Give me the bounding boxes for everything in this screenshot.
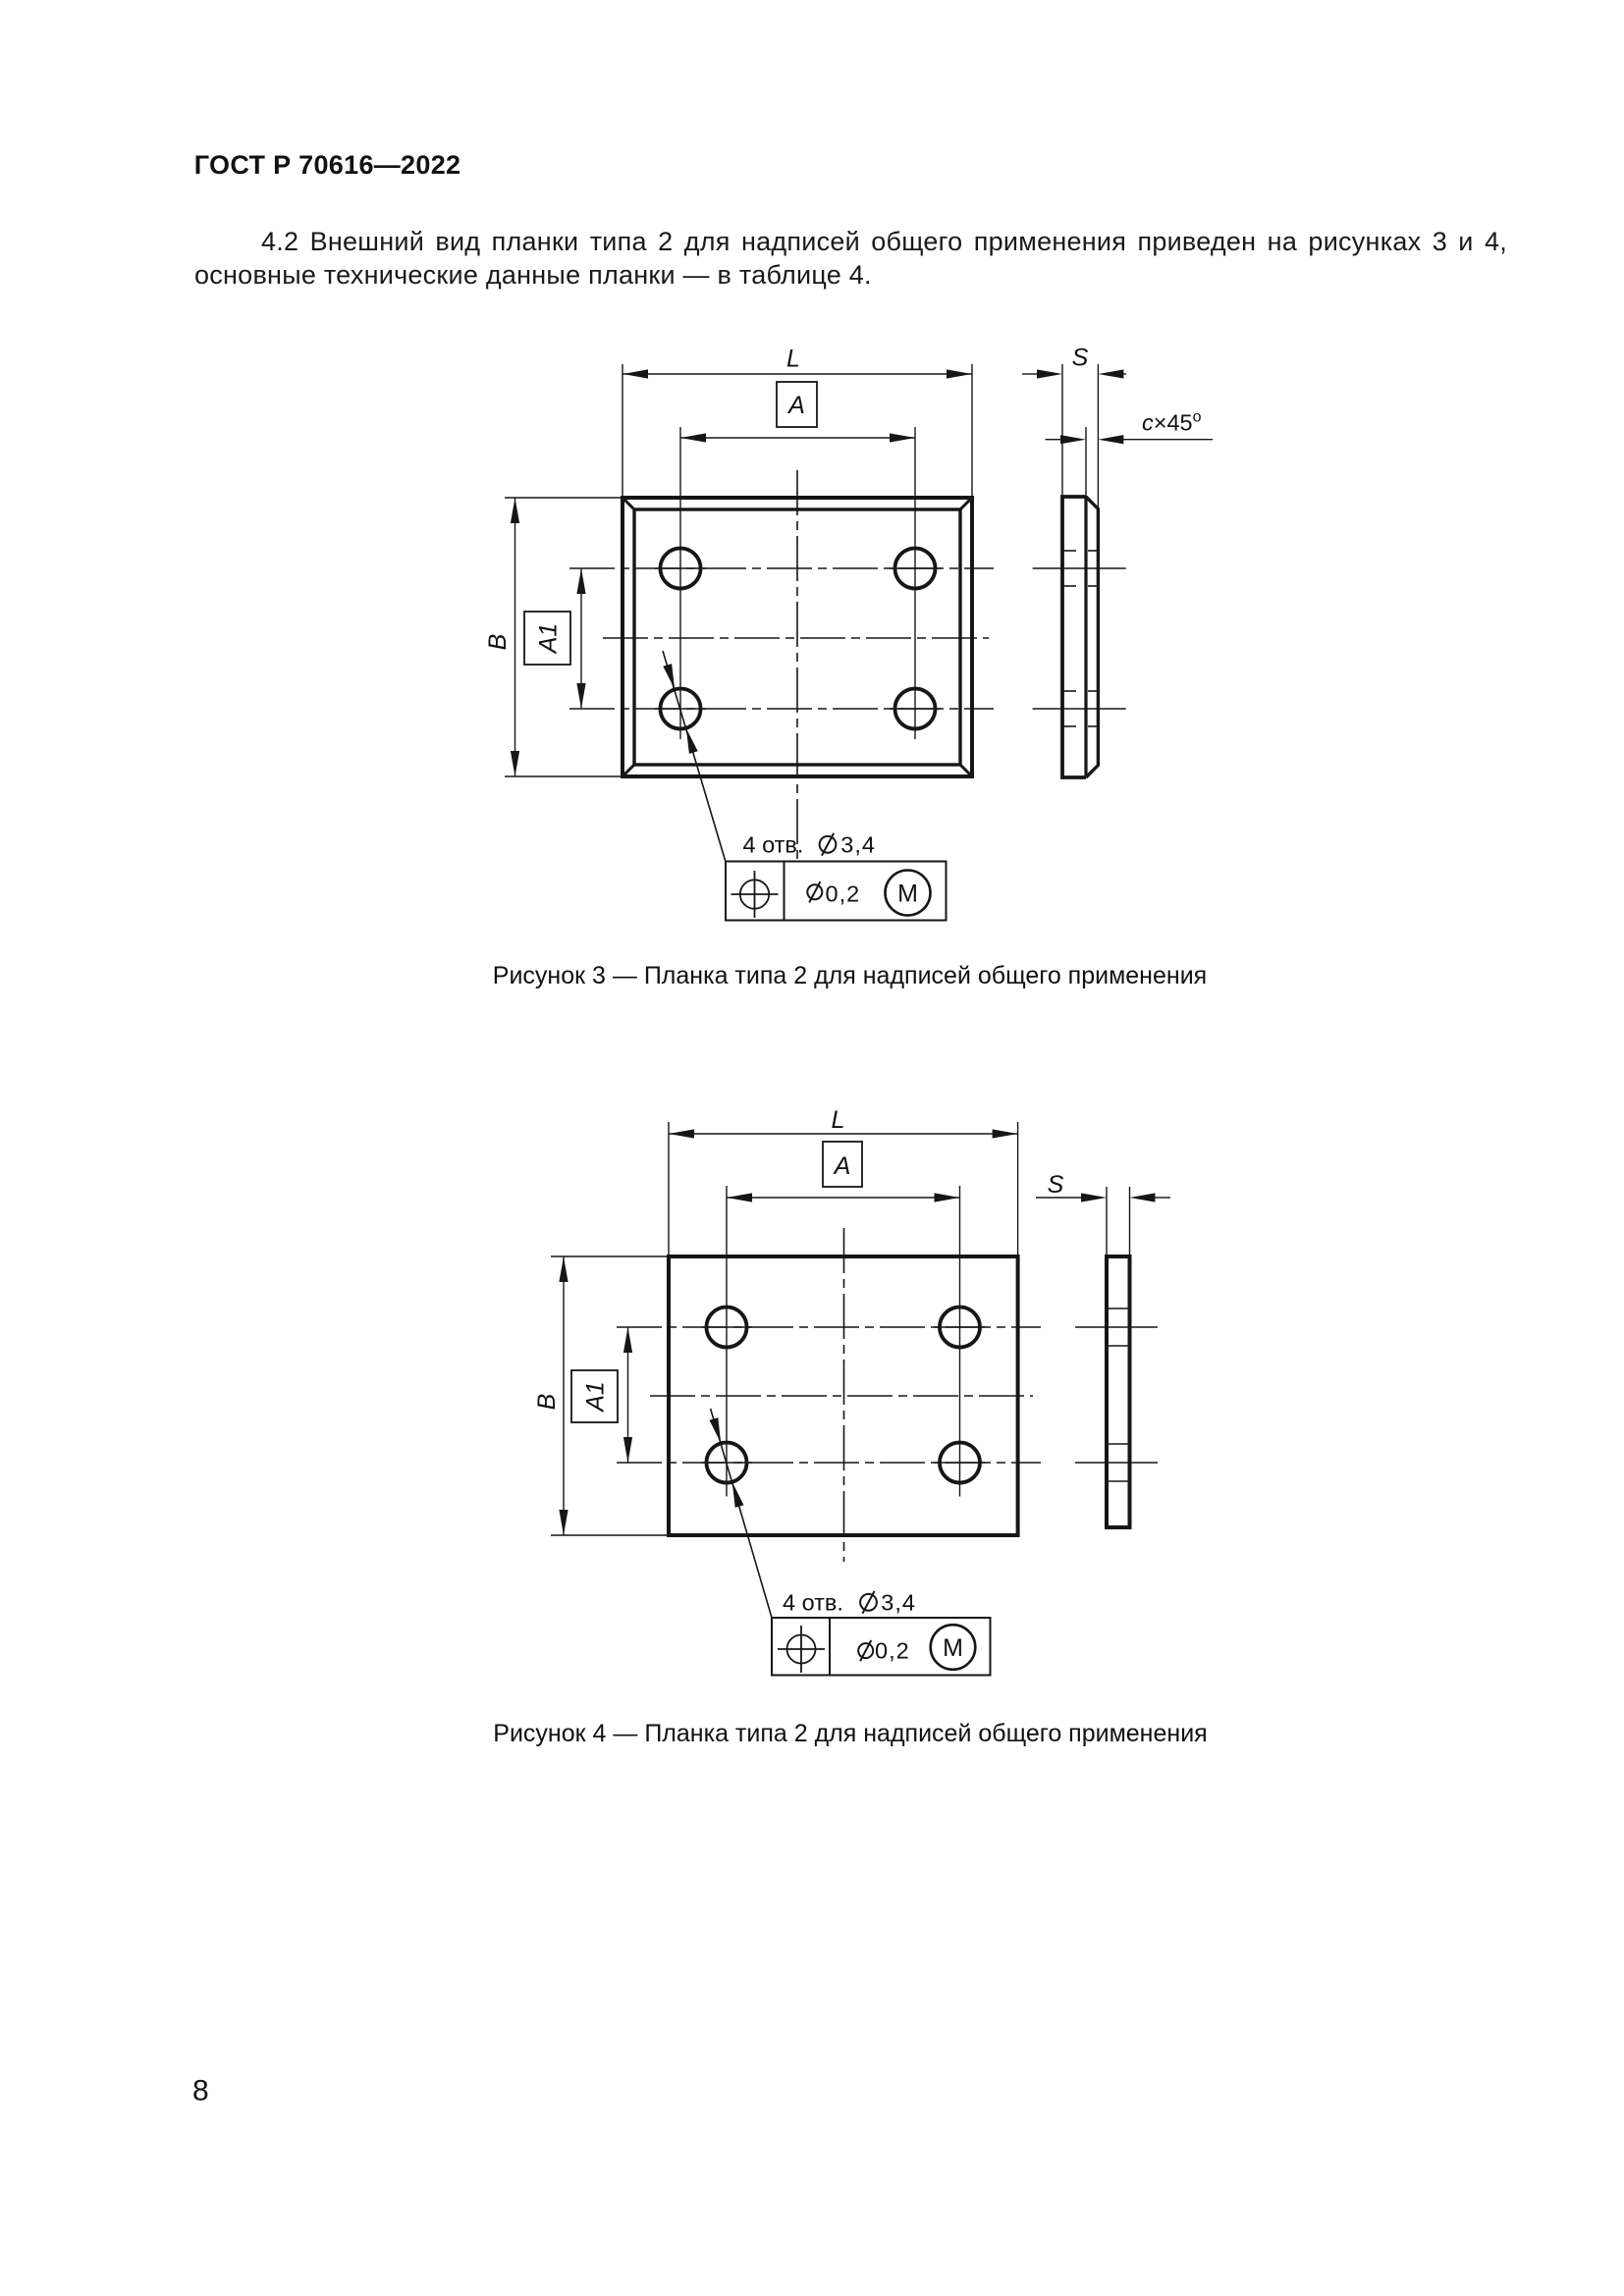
fig4 plate horizontal centerline [650, 1395, 1033, 1397]
fig4 hole top-left [707, 1308, 747, 1348]
svg-text:S: S [1048, 1171, 1064, 1199]
svg-text:A: A [833, 1152, 851, 1180]
fig4 side view hole row 2 centerline [1075, 1462, 1158, 1464]
fig3 dimension B extension line top [505, 497, 623, 499]
fig4 hole top-right [940, 1308, 980, 1348]
fig3 dimension A frame label [777, 382, 817, 427]
fig3 side view hole edge tick 2 [1064, 585, 1077, 587]
fig4 tolerance diameter symbol [858, 1643, 873, 1658]
svg-text:4 отв.: 4 отв. [783, 1590, 843, 1616]
fig3 dimension A line [680, 437, 915, 439]
paragraph 4.2 line 2 [194, 258, 1507, 292]
fig4 side view hole row 1 centerline [1075, 1326, 1158, 1328]
svg-text:B: B [533, 1394, 561, 1411]
fig4 dimension B extension line bottom [551, 1534, 669, 1536]
fig3 hole bottom-left [661, 689, 701, 729]
fig4 hole bottom-right [940, 1443, 980, 1483]
fig3 chamfer extension line [1085, 427, 1087, 497]
fig3 hole column centerline right (A extension) [914, 427, 916, 739]
fig4 dimension A line [727, 1197, 960, 1199]
fig3 chamfer corner edge top-right [960, 498, 972, 509]
fig4 hole callout diameter symbol [860, 1594, 877, 1611]
fig4 feature control frame divider [829, 1618, 831, 1676]
fig3 side view hole edge tick 1 [1064, 550, 1077, 552]
fig3 chamfer corner edge bottom-right [960, 765, 972, 776]
fig3 hole bottom-right [895, 689, 936, 729]
svg-text:A1: A1 [535, 623, 563, 656]
fig4 hole bottom-left [707, 1443, 747, 1483]
svg-text:0,2: 0,2 [826, 881, 861, 907]
fig4 dimension A1 line [627, 1327, 629, 1463]
svg-text:Рисунок 4 — Планка типа 2 для: Рисунок 4 — Планка типа 2 для надписей о… [493, 1720, 1207, 1747]
fig4 hole center dash overlays [701, 1326, 752, 1328]
fig3 hole column centerline left (A extension) [679, 427, 681, 739]
fig4 hole column centerline left (A extension) [726, 1186, 728, 1497]
svg-text:3,4: 3,4 [840, 832, 876, 858]
fig4 dimension L line [669, 1133, 1018, 1135]
svg-text:ГОСТ Р 70616—2022: ГОСТ Р 70616—2022 [194, 150, 461, 180]
fig3 plate vertical centerline [796, 470, 798, 865]
fig3 dimension L extension line left [622, 364, 623, 498]
fig4 side view outline [1107, 1256, 1130, 1527]
fig4 position tolerance symbol [787, 1635, 816, 1664]
fig3 side view outline [1062, 497, 1086, 777]
fig3 plate horizontal centerline [603, 637, 989, 639]
fig4 dimension A frame label [823, 1142, 862, 1187]
fig3 hole top-right [895, 549, 936, 589]
fig4 dimension L extension line right [1017, 1122, 1019, 1256]
fig3 side view chamfer face line [1084, 497, 1087, 777]
fig3 chamfer corner edge top-left [623, 498, 634, 509]
fig4 dimension B line [563, 1256, 565, 1535]
fig3 dimension B line [514, 498, 516, 776]
svg-text:3,4: 3,4 [881, 1590, 916, 1616]
fig3 dimension B extension line bottom [505, 775, 623, 777]
fig4 dimension B extension line top [551, 1255, 669, 1257]
fig4 hole row 2 centerline [617, 1462, 1041, 1464]
fig3 side view hole row 2 centerline [1033, 708, 1126, 710]
fig3 chamfer corner edge bottom-left [623, 765, 634, 776]
fig4 hole row 1 centerline [617, 1326, 1041, 1328]
svg-text:0,2: 0,2 [875, 1638, 910, 1664]
fig3 dimension A1 frame label [524, 612, 570, 665]
fig3 dimension S extension line right [1097, 364, 1099, 508]
fig3 dimension L line [623, 373, 972, 375]
svg-text:8: 8 [192, 2075, 209, 2108]
fig3 hole top-left [661, 549, 701, 589]
svg-text:M: M [943, 1634, 963, 1662]
svg-text:L: L [786, 346, 800, 373]
fig3 tolerance diameter symbol [807, 884, 822, 899]
fig4 material condition modifier M circle [931, 1625, 976, 1670]
svg-text:M: M [897, 881, 918, 908]
fig3 dimension L extension line right [971, 364, 973, 498]
fig4 dimension S extension line right [1129, 1187, 1131, 1256]
fig4 dimension S extension line left [1106, 1187, 1108, 1256]
svg-text:S: S [1072, 345, 1089, 372]
fig3 dimension S line with arrows [1022, 373, 1037, 375]
fig3 side view chamfered right edge [1086, 497, 1098, 777]
fig3 plate front view outer outline [623, 498, 972, 776]
paragraph 4.2 line 1 [194, 225, 1507, 258]
fig4 hole column centerline right (A extension) [959, 1186, 961, 1497]
fig3 hole callout diameter symbol [820, 836, 837, 853]
fig3 position tolerance symbol [740, 880, 769, 908]
svg-text:4 отв.: 4 отв. [743, 832, 804, 858]
fig4 plate front view outline [669, 1256, 1018, 1535]
fig3 leader line to hole [663, 651, 726, 862]
fig3 dimension A1 line [580, 568, 582, 709]
fig3 side view hole row 1 centerline [1033, 567, 1126, 569]
fig3 plate front view chamfer inner outline [634, 509, 960, 765]
fig3 side view hole edge tick 4 [1064, 725, 1077, 727]
fig3 hole row 2 centerline [569, 708, 994, 710]
fig4 feature control frame [772, 1618, 991, 1676]
fig4 dimension A1 frame label [571, 1370, 618, 1422]
fig4 side view hole edge tick 3 [1109, 1443, 1129, 1445]
fig4 dimension L extension line left [668, 1122, 670, 1256]
fig3 hole row 1 centerline [569, 567, 994, 569]
fig4 leader line to hole [711, 1409, 772, 1618]
svg-text:c×45o: c×45o [1142, 409, 1202, 436]
svg-text:A: A [786, 392, 805, 419]
fig3 hole center dash overlays [655, 567, 706, 569]
fig3 dimension S extension line left [1061, 364, 1063, 497]
fig3 material condition modifier M circle [886, 871, 931, 916]
fig4 plate vertical centerline [843, 1228, 845, 1562]
fig3 side view hole edge tick 3 [1064, 690, 1077, 692]
fig4 side view hole edge tick 1 [1109, 1308, 1129, 1309]
fig4 side view hole edge tick 2 [1109, 1345, 1129, 1347]
svg-text:L: L [832, 1106, 845, 1134]
fig3 feature control frame [726, 862, 947, 921]
svg-text:Рисунок 3 — Планка типа 2 для: Рисунок 3 — Планка типа 2 для надписей о… [493, 962, 1207, 989]
fig4 dimension S line with arrows [1036, 1197, 1081, 1199]
svg-text:B: B [484, 634, 512, 651]
svg-text:A1: A1 [582, 1381, 610, 1414]
fig3 feature control frame divider [784, 862, 785, 921]
fig3 chamfer dimension line with arrows [1046, 439, 1061, 441]
fig4 side view hole edge tick 4 [1109, 1480, 1129, 1482]
